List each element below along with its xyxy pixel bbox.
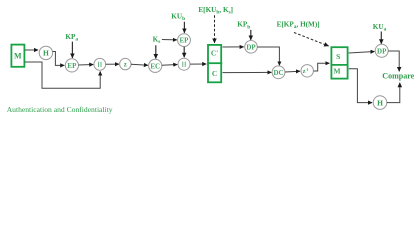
block C' / C (transmitted message) bbox=[207, 45, 222, 82]
decompression Z^-1 bbox=[301, 65, 313, 77]
svg-text:EP: EP bbox=[67, 62, 77, 70]
svg-text:EP: EP bbox=[180, 37, 190, 45]
wire DP2 down to Compare bbox=[388, 51, 399, 71]
wire EP2 down to concat2 bbox=[183, 47, 185, 58]
svg-text:DC: DC bbox=[273, 69, 283, 77]
svg-text:Compare: Compare bbox=[382, 72, 414, 81]
svg-text:KPb: KPb bbox=[237, 21, 250, 31]
wire C' to DP1 bbox=[223, 46, 244, 48]
svg-text:KPa: KPa bbox=[65, 33, 78, 43]
wire concat1 to Z bbox=[106, 63, 119, 65]
block S / M (received split) bbox=[331, 47, 349, 78]
svg-text:H: H bbox=[377, 98, 383, 107]
wire Z inverse to S/M block bbox=[314, 63, 330, 71]
wire Z to EC bbox=[131, 63, 148, 66]
concatenate junction 1 bbox=[94, 58, 106, 70]
symmetric encrypt EC bbox=[149, 59, 162, 72]
wire Ks right to EP2 bbox=[162, 39, 177, 41]
svg-text:M: M bbox=[14, 51, 22, 60]
wire M to H bbox=[25, 49, 38, 51]
wire M to H2 bbox=[349, 69, 372, 103]
wire S to DP2 bbox=[349, 52, 375, 54]
svg-text:C′: C′ bbox=[211, 48, 219, 57]
svg-text:S: S bbox=[336, 52, 340, 61]
wire H1 to EP1 bbox=[53, 52, 65, 66]
svg-text:E[KUb, Ks]: E[KUb, Ks] bbox=[198, 6, 233, 16]
svg-text:H: H bbox=[43, 49, 49, 58]
wire DC to Z inverse bbox=[285, 70, 300, 73]
svg-text:KUa: KUa bbox=[373, 23, 387, 33]
hash function H2 bbox=[373, 96, 387, 110]
svg-text:M: M bbox=[333, 66, 340, 75]
symmetric decrypt DC bbox=[272, 66, 285, 79]
wire Ks down to EC bbox=[155, 45, 157, 58]
wire DP1 to DC bbox=[257, 47, 279, 65]
wire KUb down to EP2 bbox=[183, 22, 185, 33]
wire M bottom around to concat junction bbox=[25, 62, 100, 88]
svg-text:z: z bbox=[124, 61, 127, 69]
wire EP1 to concat1 bbox=[79, 64, 94, 67]
wire concat2 to C block bbox=[190, 63, 206, 65]
svg-text:E[KPa, H(M)]: E[KPa, H(M)] bbox=[277, 21, 320, 31]
public-key encrypt EP2 bbox=[178, 34, 191, 47]
svg-text:DP: DP bbox=[246, 43, 256, 51]
svg-text:C: C bbox=[212, 69, 217, 78]
svg-text:EC: EC bbox=[150, 62, 160, 70]
block M (source message) bbox=[11, 45, 24, 67]
svg-text:Ks: Ks bbox=[153, 36, 161, 46]
public-key decrypt DP1 bbox=[245, 41, 258, 54]
wire KPa down to EP1 bbox=[71, 42, 73, 58]
compression Z bbox=[120, 58, 131, 69]
public-key encrypt EP1 bbox=[65, 59, 78, 72]
wire C to DC bbox=[223, 71, 272, 73]
dashed annotation arrow to S bbox=[294, 33, 329, 47]
svg-text:DP: DP bbox=[377, 47, 387, 55]
dashed annotation arrow to C' bbox=[214, 15, 216, 43]
concatenate junction 2 bbox=[178, 58, 190, 70]
public-key decrypt DP2 bbox=[375, 44, 388, 57]
hash function H1 bbox=[39, 46, 52, 59]
wire KPb down to DP1 bbox=[250, 30, 252, 40]
svg-text:KUb: KUb bbox=[171, 13, 185, 23]
wire EC to concat2 bbox=[162, 64, 177, 67]
wire H2 up to Compare bbox=[387, 83, 400, 103]
wire KUa down to DP2 bbox=[380, 32, 382, 44]
svg-text:Authentication and Confidentia: Authentication and Confidentiality bbox=[7, 105, 113, 114]
